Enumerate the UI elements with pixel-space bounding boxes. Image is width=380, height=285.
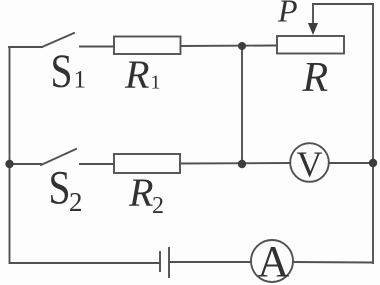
svg-text:R: R bbox=[128, 170, 153, 215]
svg-text:1: 1 bbox=[74, 67, 87, 94]
voltmeter V circle bbox=[290, 143, 329, 182]
ammeter A circle bbox=[251, 240, 293, 282]
wire: ammeter to bottom right corner bbox=[293, 261, 373, 264]
switch S2 blade bbox=[41, 149, 76, 165]
wire: top from wiper to right bbox=[313, 3, 373, 5]
svg-text:2: 2 bbox=[152, 193, 164, 219]
svg-text:R: R bbox=[124, 52, 149, 97]
svg-text:R: R bbox=[302, 55, 329, 101]
svg-text:P: P bbox=[277, 0, 298, 29]
wire: S2 right contact to R2 bbox=[80, 163, 114, 165]
svg-text:S: S bbox=[49, 162, 71, 215]
node dot left junction bbox=[5, 160, 13, 168]
wire: S1 right contact to R1 bbox=[80, 46, 114, 48]
wire: top row left segment to S1 bbox=[9, 46, 42, 48]
wire: voltmeter to right vertical bbox=[329, 162, 373, 164]
resistor R2 bbox=[114, 154, 180, 173]
switch S1 blade bbox=[42, 33, 74, 47]
svg-text:A: A bbox=[258, 237, 290, 285]
wire: R1 to potentiometer bbox=[181, 45, 278, 48]
wire: battery to ammeter bbox=[169, 261, 251, 263]
svg-text:S: S bbox=[51, 45, 73, 98]
wire: middle row left segment to S2 bbox=[9, 163, 41, 165]
svg-text:V: V bbox=[297, 144, 323, 184]
resistor R1 bbox=[114, 37, 181, 55]
potentiometer R body bbox=[277, 36, 344, 54]
node B dot (middle, after R2) bbox=[238, 160, 246, 168]
node dot right (voltmeter to right wire) bbox=[369, 159, 377, 167]
battery short plate (negative) bbox=[159, 252, 161, 271]
wire: left vertical bbox=[9, 47, 11, 263]
node A dot (top, after R1) bbox=[238, 42, 246, 50]
wire: R2 to voltmeter bbox=[180, 162, 290, 165]
wire: middle vertical from node A bbox=[241, 46, 243, 164]
wire: right vertical bbox=[372, 4, 374, 263]
wiper P arrowhead bbox=[308, 23, 318, 35]
svg-text:2: 2 bbox=[69, 187, 83, 217]
battery long plate (positive) bbox=[168, 248, 170, 277]
wire: bottom row left segment to battery bbox=[10, 262, 161, 264]
wiper P stem bbox=[312, 4, 314, 26]
svg-text:1: 1 bbox=[151, 72, 161, 94]
